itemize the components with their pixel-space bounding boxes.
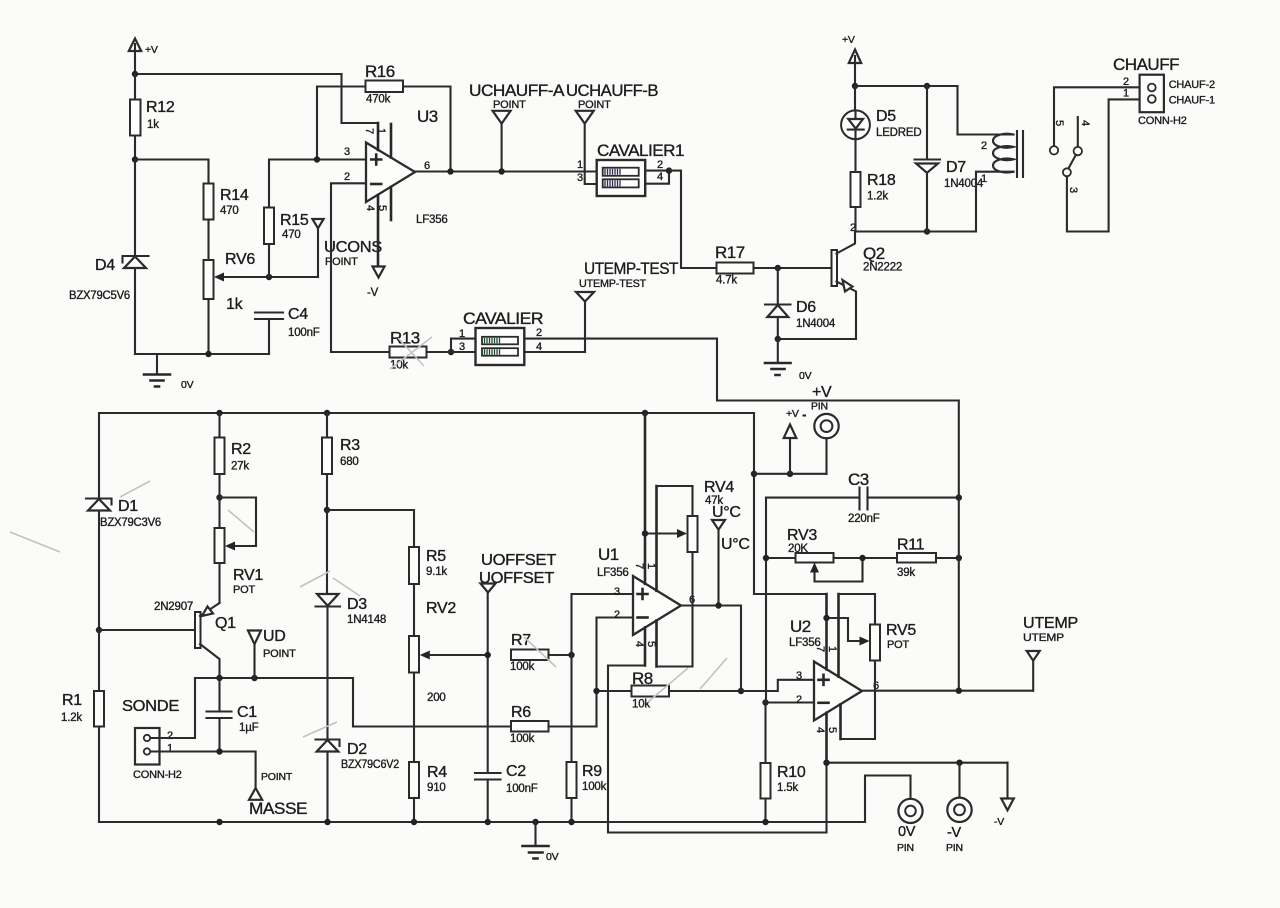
svg-text:1k: 1k <box>147 119 159 131</box>
svg-text:5: 5 <box>645 641 657 647</box>
svg-text:R16: R16 <box>365 62 395 81</box>
svg-text:R4: R4 <box>427 764 447 781</box>
svg-text:10k: 10k <box>632 699 650 711</box>
wire +V rail to U3 pin7 <box>135 74 378 123</box>
svg-text:C3: C3 <box>848 470 869 489</box>
svg-text:D1: D1 <box>118 498 138 515</box>
svg-text:2: 2 <box>614 609 620 621</box>
svg-text:3: 3 <box>796 670 802 682</box>
svg-text:2N2907: 2N2907 <box>154 601 193 613</box>
svg-text:D4: D4 <box>95 257 115 274</box>
node R3/D3/R5 <box>324 507 330 513</box>
svg-text:-V: -V <box>994 816 1004 828</box>
potentiometer RV1 <box>215 498 264 604</box>
ground rail top-left <box>135 353 269 355</box>
power -V arrow <box>994 763 1014 828</box>
wire U3 output row <box>415 170 597 172</box>
node D6/Q2 emitter <box>775 336 781 342</box>
ground rail bottom <box>99 821 865 823</box>
svg-text:1: 1 <box>826 646 838 652</box>
svg-text:3: 3 <box>1067 187 1079 193</box>
wire CAVALIER1 pins 2,4 <box>645 171 669 184</box>
svg-text:470: 470 <box>220 205 239 217</box>
svg-text:PIN: PIN <box>811 401 828 413</box>
svg-text:C2: C2 <box>506 763 526 780</box>
wire CAVALIER pin2 to C3/R11 net <box>524 339 959 498</box>
svg-text:C4: C4 <box>288 306 308 323</box>
svg-text:4: 4 <box>657 171 663 183</box>
svg-text:4: 4 <box>633 641 645 647</box>
wire CAVALIER1 to R17 <box>669 171 717 268</box>
svg-text:6: 6 <box>424 160 430 172</box>
svg-text:R10: R10 <box>777 764 806 781</box>
svg-text:220nF: 220nF <box>848 513 880 525</box>
svg-text:R11: R11 <box>897 537 925 554</box>
node R17/D6/Q2 base <box>775 265 781 271</box>
resistor R14 <box>204 184 249 261</box>
svg-text:CONN-H2: CONN-H2 <box>133 769 182 781</box>
resistor R18 <box>851 172 896 232</box>
svg-text:100k: 100k <box>582 781 607 793</box>
relay core <box>1017 131 1023 177</box>
svg-text:0V: 0V <box>898 824 916 840</box>
svg-text:LF356: LF356 <box>789 637 821 649</box>
resistor R5 <box>409 547 447 636</box>
svg-text:1: 1 <box>459 328 465 340</box>
svg-text:910: 910 <box>427 782 446 794</box>
diode D7 <box>915 86 984 232</box>
svg-text:0V: 0V <box>799 370 812 382</box>
zener diode D4 <box>69 160 149 355</box>
ground symbol 0V at D6 <box>765 339 812 382</box>
scan scratch marks <box>10 337 727 737</box>
svg-text:1N4148: 1N4148 <box>347 614 386 626</box>
wire U2 output row <box>862 690 1033 692</box>
svg-text:POT: POT <box>887 639 909 651</box>
wire emitter row <box>778 338 856 340</box>
svg-text:R15: R15 <box>280 212 309 229</box>
resistor R17 <box>715 243 832 287</box>
svg-text:RV3: RV3 <box>787 527 817 544</box>
node D7 top <box>924 83 930 89</box>
wire U1 output row <box>681 606 741 692</box>
resistor R7 <box>510 632 572 673</box>
connector SONDE CONN-H2 <box>122 698 182 781</box>
power -V below U3 <box>367 267 385 300</box>
diode D3 <box>316 510 387 740</box>
svg-text:4: 4 <box>814 727 826 733</box>
node +V/D5 <box>852 83 858 89</box>
svg-text:D2: D2 <box>347 741 367 758</box>
resistor R3 <box>322 413 360 510</box>
wire U3 pin2 to R13 <box>331 183 390 352</box>
svg-text:470k: 470k <box>366 94 391 106</box>
svg-text:R3: R3 <box>340 437 360 454</box>
svg-text:2N2222: 2N2222 <box>863 262 902 274</box>
wire +V rail bottom section <box>99 413 827 594</box>
svg-text:POINT: POINT <box>578 99 611 111</box>
potentiometer RV6 <box>204 251 319 354</box>
svg-text:UTEMP-TEST: UTEMP-TEST <box>579 278 646 290</box>
op-amp U1 <box>597 413 695 667</box>
svg-text:CAVALIER: CAVALIER <box>463 309 543 328</box>
power +V symbol above Q2 <box>842 34 861 86</box>
pin -V PIN <box>946 763 972 854</box>
svg-text:-V: -V <box>367 287 379 299</box>
resistor R2 <box>215 413 252 498</box>
svg-text:9.1k: 9.1k <box>426 566 447 578</box>
svg-text:1.5k: 1.5k <box>777 782 798 794</box>
svg-text:4.7k: 4.7k <box>716 275 737 287</box>
svg-text:LF356: LF356 <box>416 214 448 226</box>
svg-text:UCHAUFF-B: UCHAUFF-B <box>566 81 658 100</box>
wire -V row <box>827 762 1008 764</box>
svg-text:1: 1 <box>577 159 583 171</box>
svg-text:R8: R8 <box>632 669 653 688</box>
svg-text:R1: R1 <box>62 692 82 709</box>
resistor R8 <box>597 669 742 711</box>
node D1/R1/Q1 base <box>96 627 102 633</box>
wire C3/R11 right vertical <box>958 498 960 691</box>
relay coil K1 <box>976 134 1014 232</box>
test point MASSE <box>249 771 307 818</box>
svg-text:7: 7 <box>363 128 375 134</box>
resistor R1 <box>61 630 104 822</box>
resistor R6 <box>353 704 597 745</box>
svg-text:39k: 39k <box>897 567 915 579</box>
svg-text:5: 5 <box>376 205 388 211</box>
svg-text:CHAUF-1: CHAUF-1 <box>1169 95 1215 107</box>
svg-text:UD: UD <box>263 628 286 645</box>
resistor R10 <box>761 703 806 823</box>
pin +V PIN <box>811 384 839 474</box>
svg-text:100nF: 100nF <box>288 327 320 339</box>
svg-text:100k: 100k <box>510 733 535 745</box>
svg-text:R18: R18 <box>867 172 896 189</box>
pin 0V PIN <box>865 776 923 855</box>
node +V/R12 <box>132 71 138 77</box>
node R13/CAVALIER pins 1,3 <box>448 349 454 355</box>
svg-text:5: 5 <box>1053 120 1065 126</box>
svg-text:R2: R2 <box>231 441 251 458</box>
svg-text:D7: D7 <box>946 159 966 176</box>
test point UTEMP <box>1023 615 1078 691</box>
svg-text:POINT: POINT <box>493 99 526 111</box>
svg-text:U1: U1 <box>598 545 619 564</box>
svg-text:RV2: RV2 <box>426 600 456 617</box>
svg-text:200: 200 <box>427 692 446 704</box>
wire R8 to U2 pin3 <box>741 680 814 691</box>
svg-text:2: 2 <box>981 140 987 152</box>
potentiometer RV5 <box>823 594 916 739</box>
svg-text:1µF: 1µF <box>239 722 259 734</box>
svg-text:1: 1 <box>981 173 987 185</box>
svg-text:2: 2 <box>1123 76 1129 88</box>
node R16/pin3 <box>314 156 320 162</box>
svg-text:LEDRED: LEDRED <box>876 127 921 139</box>
test point U°C <box>712 504 750 606</box>
svg-text:3: 3 <box>577 172 583 184</box>
power +V symbol top-left <box>129 39 158 75</box>
svg-text:3: 3 <box>614 586 620 598</box>
svg-text:1k: 1k <box>226 296 244 313</box>
wire node to R14 top <box>135 160 209 184</box>
svg-text:1.2k: 1.2k <box>867 191 888 203</box>
test point UD <box>248 628 296 678</box>
svg-text:SONDE: SONDE <box>122 698 179 715</box>
svg-text:4: 4 <box>1079 120 1091 126</box>
svg-text:100k: 100k <box>510 661 535 673</box>
svg-text:RV5: RV5 <box>886 622 916 639</box>
svg-text:PIN: PIN <box>946 842 963 854</box>
svg-text:BZX79C6V2: BZX79C6V2 <box>341 759 399 771</box>
svg-text:+V: +V <box>842 34 855 46</box>
node RV6 wiper / R15 / C4 <box>266 274 272 280</box>
svg-text:CAVALIER1: CAVALIER1 <box>597 141 684 160</box>
svg-text:RV6: RV6 <box>225 251 255 268</box>
svg-text:R5: R5 <box>426 548 446 565</box>
svg-text:R17: R17 <box>715 243 745 262</box>
svg-text:D6: D6 <box>796 299 816 316</box>
svg-text:+V: +V <box>145 44 158 56</box>
jumper CAVALIER <box>459 309 543 365</box>
svg-text:1N4004: 1N4004 <box>796 318 836 330</box>
svg-text:UTEMP: UTEMP <box>1023 615 1078 632</box>
svg-text:+V: +V <box>812 384 832 401</box>
connector CHAUFF CONN-H2 <box>1113 55 1215 127</box>
ground symbol 0V bottom <box>523 822 559 863</box>
svg-text:1: 1 <box>645 563 657 569</box>
jumper CAVALIER1 <box>577 141 684 196</box>
diode D6 <box>765 268 836 339</box>
resistor R4 <box>409 762 447 822</box>
potentiometer RV3 <box>763 527 897 582</box>
svg-text:POINT: POINT <box>261 771 293 783</box>
wire U1 pin4 to -V link <box>608 666 827 833</box>
svg-text:UCHAUFF-A: UCHAUFF-A <box>469 81 565 100</box>
svg-text:BZX79C5V6: BZX79C5V6 <box>69 290 130 302</box>
svg-text:2: 2 <box>796 694 802 706</box>
svg-text:D5: D5 <box>876 108 896 125</box>
svg-text:27k: 27k <box>231 461 249 473</box>
wire R13 to jumper <box>427 339 476 352</box>
svg-text:-V: -V <box>947 825 962 841</box>
test point UCONS <box>312 219 382 277</box>
svg-text:D3: D3 <box>347 596 367 613</box>
svg-text:R9: R9 <box>582 763 602 780</box>
svg-text:MASSE: MASSE <box>249 799 307 818</box>
svg-text:1: 1 <box>1123 88 1129 100</box>
capacitor C2 <box>475 763 538 822</box>
op-amp U2 <box>789 594 879 763</box>
svg-text:100nF: 100nF <box>506 783 538 795</box>
wire left vertical to D1 <box>98 413 100 499</box>
LED D5 <box>841 86 921 172</box>
node R12/D4/R14 <box>132 156 138 162</box>
resistor R15 <box>264 160 366 278</box>
svg-text:+V: +V <box>786 408 799 420</box>
svg-text:CONN-H2: CONN-H2 <box>1138 115 1187 127</box>
svg-text:4: 4 <box>364 205 376 211</box>
zener diode D2 <box>316 740 400 823</box>
svg-text:BZX79C3V6: BZX79C3V6 <box>100 517 161 529</box>
svg-text:1: 1 <box>167 743 173 755</box>
transistor Q1 <box>99 601 236 678</box>
test point UTEMP-TEST <box>576 292 594 352</box>
node R2/RV1 <box>216 494 222 500</box>
wire CAVALIER pin4 to UTEMP-TEST point <box>524 351 585 353</box>
node UOFFSET/R7/RV2 <box>485 652 491 658</box>
svg-text:UOFFSET: UOFFSET <box>481 552 557 569</box>
wire C3/RV3 left vertical <box>765 498 767 703</box>
svg-text:2: 2 <box>536 327 542 339</box>
svg-text:2: 2 <box>657 159 663 171</box>
svg-text:U2: U2 <box>790 617 811 636</box>
svg-text:2: 2 <box>344 171 350 183</box>
wire UD row <box>195 678 353 727</box>
svg-text:RV4: RV4 <box>704 479 734 496</box>
svg-text:1: 1 <box>375 128 387 134</box>
zener diode D1 <box>86 498 161 630</box>
svg-text:470: 470 <box>282 229 301 241</box>
svg-text:Q2: Q2 <box>863 244 885 263</box>
svg-text:UCONS: UCONS <box>324 239 382 256</box>
svg-text:5: 5 <box>826 727 838 733</box>
svg-text:1N4004: 1N4004 <box>944 178 984 190</box>
resistor R16 <box>317 62 451 172</box>
node D7 bottom <box>924 228 930 234</box>
svg-text:U3: U3 <box>417 107 438 126</box>
svg-text:3: 3 <box>459 341 465 353</box>
resistor R13 <box>390 329 427 372</box>
svg-text:POT: POT <box>233 584 255 596</box>
node R7/R9/U1 pin3 <box>568 652 574 658</box>
wire SONDE pin1 / MASSE <box>151 752 256 788</box>
test point UCHAUFF-A <box>469 81 565 175</box>
svg-text:CHAUFF: CHAUFF <box>1113 55 1179 74</box>
potentiometer RV2 <box>409 600 488 762</box>
relay switch contact 4 <box>1074 117 1091 155</box>
resistor R12 <box>130 74 175 160</box>
svg-text:R12: R12 <box>146 99 175 116</box>
power +V_ arrow mid <box>754 408 827 477</box>
svg-text:U°C: U°C <box>712 504 741 521</box>
svg-text:CHAUF-2: CHAUF-2 <box>1169 79 1215 91</box>
op-amp U3 <box>344 107 448 267</box>
svg-text:7: 7 <box>633 563 645 569</box>
capacitor C1 <box>207 678 259 752</box>
wire collector row <box>855 230 976 232</box>
resistor R11 <box>897 537 959 580</box>
svg-text:0V: 0V <box>181 379 194 391</box>
ground symbol 0V top-left <box>144 354 194 391</box>
resistor R9 <box>567 655 607 822</box>
svg-text:R6: R6 <box>511 704 531 721</box>
svg-text:RV1: RV1 <box>233 567 263 584</box>
svg-text:UTEMP: UTEMP <box>1023 632 1064 644</box>
svg-text:POINT: POINT <box>263 648 296 660</box>
transistor Q2 <box>832 222 903 339</box>
svg-text:2: 2 <box>167 730 173 742</box>
svg-text:PIN: PIN <box>897 842 914 854</box>
svg-text:C1: C1 <box>237 704 257 721</box>
relay switch contact 5 <box>1050 87 1140 154</box>
capacitor C3 <box>766 470 959 525</box>
svg-text:U°C: U°C <box>721 536 750 553</box>
svg-text:0V: 0V <box>546 851 559 863</box>
svg-text:20K: 20K <box>788 543 808 555</box>
relay switch lever and contact 3 <box>1063 99 1140 231</box>
wire +V rail right <box>855 86 1014 135</box>
wire R6/R8 to U1 pin2 <box>597 618 634 727</box>
svg-text:UTEMP-TEST: UTEMP-TEST <box>584 259 678 278</box>
svg-text:R14: R14 <box>220 187 249 204</box>
svg-text:Q1: Q1 <box>215 615 236 632</box>
svg-text:LF356: LF356 <box>597 567 629 579</box>
potentiometer RV4 <box>642 479 735 667</box>
capacitor C4 <box>255 306 320 354</box>
wire SONDE pin2 <box>151 678 196 738</box>
test point UCHAUFF-B <box>566 81 658 184</box>
svg-text:1.2k: 1.2k <box>61 712 82 724</box>
svg-text:3: 3 <box>344 146 350 158</box>
wire U2 pin2 row <box>766 701 815 703</box>
test point UOFFSET <box>479 552 557 773</box>
svg-text:680: 680 <box>340 456 359 468</box>
wire node to R5 <box>327 510 414 547</box>
wire to U1 pin3 <box>572 594 634 655</box>
